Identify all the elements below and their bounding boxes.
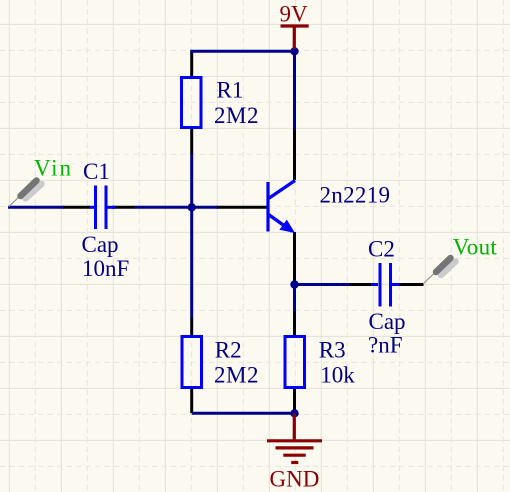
svg-text:GND: GND xyxy=(270,466,320,491)
svg-text:C2: C2 xyxy=(368,237,395,262)
svg-text:C1: C1 xyxy=(83,159,110,184)
svg-text:2M2: 2M2 xyxy=(214,362,259,387)
svg-text:R2: R2 xyxy=(215,338,242,363)
svg-text:2M2: 2M2 xyxy=(214,103,259,128)
svg-text:?nF: ?nF xyxy=(368,332,403,357)
svg-text:10nF: 10nF xyxy=(82,256,129,281)
svg-text:2n2219: 2n2219 xyxy=(320,183,391,208)
svg-text:Vin: Vin xyxy=(34,156,72,181)
svg-text:Cap: Cap xyxy=(82,232,119,257)
svg-text:9V: 9V xyxy=(280,1,309,26)
svg-text:R3: R3 xyxy=(319,338,346,363)
svg-text:R1: R1 xyxy=(217,78,244,103)
svg-text:10k: 10k xyxy=(320,362,355,387)
svg-text:Vout: Vout xyxy=(453,235,498,260)
svg-text:Cap: Cap xyxy=(369,309,406,334)
